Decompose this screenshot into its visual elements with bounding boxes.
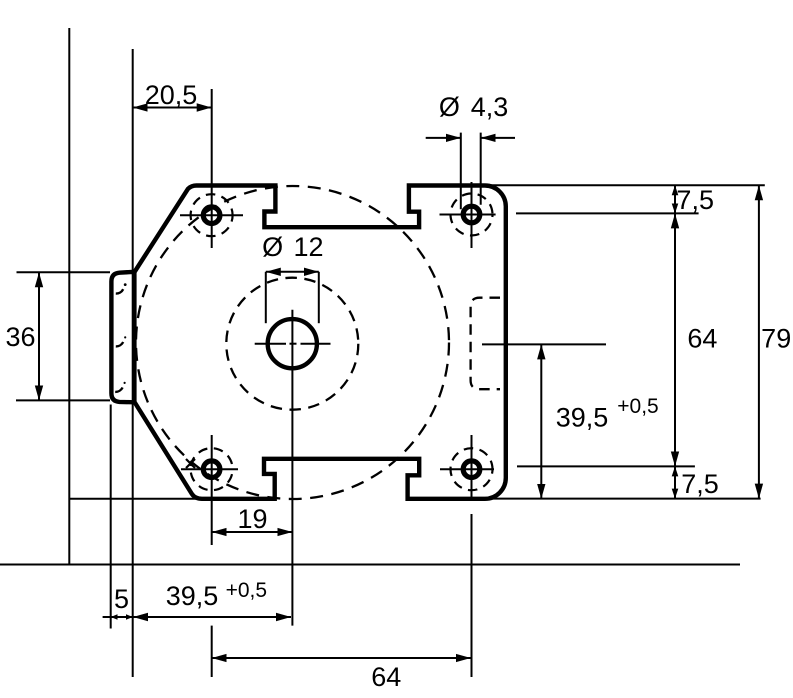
svg-text:Ø: Ø (439, 92, 460, 122)
plate outline (135, 186, 506, 499)
svg-text:36: 36 (5, 322, 35, 352)
svg-text:Ø: Ø (262, 232, 283, 262)
svg-text:4,3: 4,3 (471, 92, 509, 122)
dim dia 4,3 arrows (426, 137, 461, 139)
long extension line at plate left edge (132, 49, 134, 677)
dim 39,5 right (540, 344, 542, 498)
top-left hole centerlines (211, 89, 213, 248)
36 extension lines (17, 271, 111, 273)
svg-text:39,5: 39,5 (556, 403, 609, 433)
dim 7,5 top right (674, 185, 676, 213)
svg-text:79: 79 (761, 324, 791, 354)
dim 7,5 bottom right (674, 466, 676, 498)
hole bottom-left (203, 461, 220, 478)
left tab (111, 272, 134, 403)
dia 4,3 extension lines (460, 133, 462, 210)
svg-text:39,5: 39,5 (166, 581, 219, 611)
dim 5 (103, 616, 111, 618)
hole top-left (203, 207, 220, 224)
hidden hook dashes in tab (115, 283, 126, 392)
top-right hole centerlines (471, 182, 473, 248)
svg-text:64: 64 (371, 662, 401, 692)
svg-text:5: 5 (114, 584, 129, 614)
dim 20,5 (133, 107, 212, 109)
dashed slot on right (471, 298, 500, 390)
svg-text:+0,5: +0,5 (617, 395, 658, 418)
bottom-right hole centerlines (471, 435, 473, 500)
svg-text:7,5: 7,5 (681, 469, 719, 499)
dia 12 extension lines (265, 272, 267, 323)
center hole centerlines (291, 310, 293, 626)
5 extension line (110, 405, 112, 629)
dim 19 (212, 531, 293, 533)
dim 64 bottom (212, 657, 471, 659)
svg-text:+0,5: +0,5 (226, 579, 267, 602)
dim 39,5 bottom (133, 616, 291, 618)
svg-text:12: 12 (293, 232, 323, 262)
wall line (vertical panel edge) (68, 28, 70, 565)
dimension lines with arrows (39, 108, 759, 659)
bottom edge extensions (69, 498, 200, 500)
bottom-left hole centerlines (211, 435, 213, 545)
floor line (horizontal panel edge) (0, 564, 740, 566)
centerlines (16, 89, 765, 677)
svg-text:20,5: 20,5 (145, 80, 198, 110)
center hole (268, 319, 317, 368)
dim 64 right (674, 213, 676, 466)
hole bottom-right (463, 461, 480, 478)
svg-text:7,5: 7,5 (676, 185, 714, 215)
bolt dashed circle (226, 278, 358, 410)
dim dia 12 (266, 271, 319, 273)
top edge extension right (486, 184, 765, 186)
dim 36 (38, 272, 40, 400)
hole top-right (463, 206, 480, 223)
dim 79 (758, 185, 760, 498)
x mark near bottom-left hole (186, 459, 195, 468)
svg-text:19: 19 (237, 504, 267, 534)
big dashed circle (body) (136, 186, 449, 499)
svg-text:64: 64 (687, 324, 717, 354)
